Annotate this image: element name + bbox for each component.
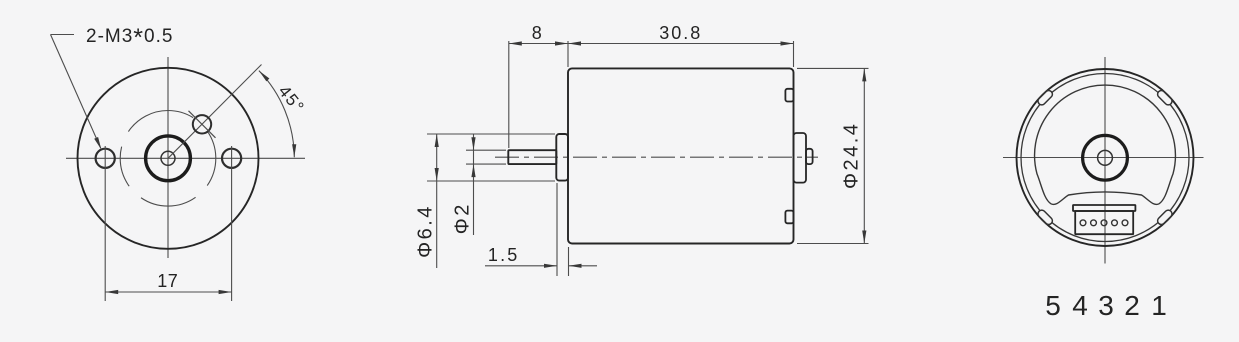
motor body (side view): [568, 68, 794, 243]
bottom-right brush tab: [785, 211, 793, 224]
extension line body left: [567, 41, 569, 67]
dimension line phi2: [473, 134, 475, 235]
dimension line phi6.4: [436, 134, 438, 268]
right mounting hole: [222, 149, 241, 168]
front view shaft circle: [161, 151, 175, 165]
top-right brush tab: [785, 89, 793, 102]
connector pin 4 circle: [1091, 220, 1097, 226]
connector housing top bar: [1073, 205, 1135, 211]
extension line bushing left: [556, 183, 558, 276]
svg-text:5: 5: [1045, 290, 1061, 321]
dimension line 1.5 left part: [485, 265, 557, 267]
rear bearing cap: [794, 133, 807, 183]
motor shaft (side view): [508, 150, 556, 164]
front view motor body outer circle: [78, 68, 259, 249]
svg-text:30.8: 30.8: [659, 23, 702, 43]
end-cap / brush card outline: [1035, 85, 1176, 204]
connector pin 2 circle: [1112, 220, 1118, 226]
connector pin 5 circle: [1080, 220, 1086, 226]
45-degree radial line: [168, 65, 262, 159]
svg-text:1.5: 1.5: [488, 245, 520, 265]
extension line bushing bottom: [427, 180, 555, 182]
back view case lip circle: [1021, 74, 1189, 242]
side view dash-dot centerline: [495, 156, 818, 158]
front bushing (side view): [556, 134, 568, 181]
extension line body right: [793, 41, 795, 67]
back view shaft hub ring: [1083, 135, 1128, 180]
extension line body bottom-right: [797, 243, 869, 245]
leader shoulder for 2-M3*0.5: [51, 34, 75, 36]
svg-text:Φ6.4: Φ6.4: [414, 204, 436, 258]
extension line shaft bottom: [466, 163, 506, 165]
svg-text:3: 3: [1098, 290, 1114, 321]
upper-left crimp tab: [1037, 89, 1054, 106]
back view horizontal centerline: [1003, 157, 1204, 159]
connector pin 1 circle: [1122, 220, 1128, 226]
rear shaft stub: [806, 149, 813, 164]
upper-right crimp tab: [1156, 89, 1173, 106]
lower-left crimp tab: [1037, 209, 1054, 226]
extension line shaft top: [466, 149, 506, 151]
extension line body left lower: [568, 247, 570, 276]
svg-text:1: 1: [1151, 290, 1167, 321]
dimension line 8: [509, 43, 568, 45]
svg-text:8: 8: [532, 23, 542, 43]
dimension line 1.5 right part: [569, 265, 598, 267]
right hole centerline / extension: [231, 146, 233, 301]
left mounting hole: [96, 149, 115, 168]
dimension line phi24.4: [863, 68, 865, 243]
dimension line 30.8: [568, 43, 794, 45]
back view shaft circle: [1098, 150, 1113, 165]
connector pin 3 circle: [1101, 220, 1107, 226]
front view bolt-circle (dashed): [120, 111, 216, 207]
left hole centerline / extension: [104, 146, 106, 301]
svg-text:Φ24.4: Φ24.4: [840, 122, 862, 189]
lower-right crimp tab: [1156, 209, 1173, 226]
svg-text:17: 17: [157, 271, 178, 291]
dimension line 17: [105, 291, 231, 293]
extension line body top-right: [797, 67, 869, 69]
back view outer circle: [1017, 69, 1194, 246]
svg-text:4: 4: [1072, 290, 1088, 321]
front view horizontal centerline: [66, 157, 305, 159]
front view vertical centerline: [167, 57, 169, 258]
front view shaft hub ring: [146, 136, 191, 181]
extension line bushing top: [427, 133, 555, 135]
svg-text:Φ2: Φ2: [451, 202, 473, 234]
leader line to left hole: [51, 35, 101, 148]
threaded hole cross stroke: [189, 111, 216, 138]
extension line shaft tip: [508, 41, 510, 148]
back view vertical centerline: [1104, 57, 1106, 264]
45-degree dimension arc: [259, 71, 294, 158]
connector housing body: [1075, 211, 1133, 234]
threaded hole at 45deg (circle): [193, 115, 211, 133]
svg-text:2: 2: [1124, 290, 1140, 321]
